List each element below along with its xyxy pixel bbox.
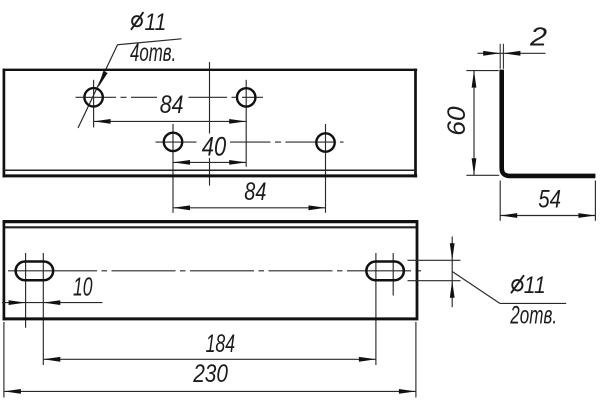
diameter symbol bottom note (511, 275, 524, 293)
svg-text:10: 10 (73, 271, 93, 301)
slot dia11 dim extension top (408, 259, 461, 261)
dimension 2 right outside arrow (503, 51, 520, 56)
dimension 54 right extension (594, 181, 596, 221)
dimension 184 line (43, 358, 376, 360)
dimension 230 left extension (3, 322, 5, 398)
hole3 (164, 133, 182, 151)
dimension 230 right arrow (399, 389, 416, 394)
dimension 84 lower left arrow (173, 205, 190, 210)
centerline vertical hole4 (325, 124, 327, 213)
dimension 230 line (4, 390, 416, 392)
whiteout behind 84 upper text (157, 90, 189, 104)
leader shelf slots note (500, 302, 566, 304)
top view left edge (3, 69, 6, 178)
bottom view top edge (3, 220, 418, 223)
dimension 60 bottom arrow (472, 158, 477, 175)
slot dia11 dim extension bottom (408, 280, 461, 282)
bottom view bend line (4, 226, 416, 228)
leader line slots note (452, 272, 500, 304)
leader shelf under dia 11 (117, 39, 182, 45)
top view top edge (3, 69, 418, 71)
svg-text:60: 60 (443, 106, 471, 135)
hole1 (84, 88, 102, 106)
dimension 54 right arrow (578, 213, 595, 218)
slot dia11 lower outside arrow (450, 281, 455, 298)
centerline vertical hole1 (93, 80, 95, 128)
dimension 84 upper line (94, 120, 247, 122)
slot left arc2 extension line (42, 253, 44, 365)
svg-text:84: 84 (244, 178, 266, 206)
svg-text:2отв.: 2отв. (510, 302, 557, 330)
centerline vertical hole3 (172, 124, 174, 213)
centerline vertical hole2 (245, 80, 247, 167)
dimension 2 right extension (502, 44, 504, 69)
svg-text:84: 84 (160, 91, 184, 119)
dimension 230 left arrow (4, 389, 21, 394)
dimension 54 left arrow (500, 213, 517, 218)
L profile (502, 70, 596, 176)
dimension 2 left extension (499, 44, 501, 69)
dimension 60 top arrow (472, 71, 477, 88)
dimension 2 left outside arrow (483, 51, 500, 56)
top view right edge (414, 69, 417, 178)
svg-text:54: 54 (538, 186, 561, 214)
dimension 60 line (473, 71, 475, 176)
hole4 (316, 133, 334, 151)
svg-text:230: 230 (192, 360, 228, 388)
slot right (366, 262, 404, 281)
slot left (16, 262, 54, 281)
dimension 84 upper right arrow (229, 119, 246, 124)
dimension 2 line (478, 52, 546, 54)
slot right arc2 extension line (392, 253, 394, 296)
dimension 40 right arrow (229, 160, 246, 165)
dimension 84 upper left arrow (94, 119, 111, 124)
slot centerline bottom view (8, 270, 97, 272)
dimension 60 top extension (466, 70, 498, 72)
svg-text:11: 11 (524, 272, 546, 299)
dimension 10 left outside arrow (9, 300, 26, 305)
top view bottom edge (3, 174, 418, 177)
dimension 84 lower right arrow (309, 205, 326, 210)
bottom view left edge (3, 220, 6, 320)
dimension 10 line (2, 302, 103, 304)
slot dia11 upper outside arrow (450, 243, 455, 260)
leader line for holes note (78, 45, 118, 128)
slot dia11 dimension line vertical (451, 237, 453, 308)
svg-text:4отв.: 4отв. (130, 39, 176, 67)
top view bend line (4, 169, 416, 171)
dimension 10 right outside arrow (43, 300, 60, 305)
dimension 184 left arrow (43, 357, 60, 362)
leader arrow at hole1 (96, 71, 108, 88)
dimension 54 left extension (499, 181, 501, 221)
bottom view bottom edge (3, 317, 418, 320)
bottom view right edge (416, 220, 419, 320)
dimension 184 right arrow (359, 357, 376, 362)
dimension 60 bottom extension (466, 174, 499, 176)
dimension 54 line (500, 215, 595, 217)
slot left arc extension line (25, 253, 27, 328)
symmetry center line of top view (209, 62, 211, 186)
whiteout behind 40 text (197, 134, 231, 159)
svg-text:184: 184 (206, 330, 236, 358)
svg-text:40: 40 (202, 132, 226, 162)
centerline horizontal upper holes (76, 96, 264, 98)
svg-text:2: 2 (529, 21, 548, 51)
dimension 40 left arrow (173, 160, 190, 165)
slot right arc extension line (375, 253, 377, 365)
svg-text:11: 11 (145, 9, 167, 36)
centerline horizontal lower holes (156, 141, 344, 143)
dimension 40 line (173, 161, 246, 163)
hole2 (237, 88, 255, 106)
dimension 84 lower line (173, 207, 326, 209)
diameter symbol top note (131, 12, 143, 30)
dimension 230 right extension (415, 322, 417, 398)
